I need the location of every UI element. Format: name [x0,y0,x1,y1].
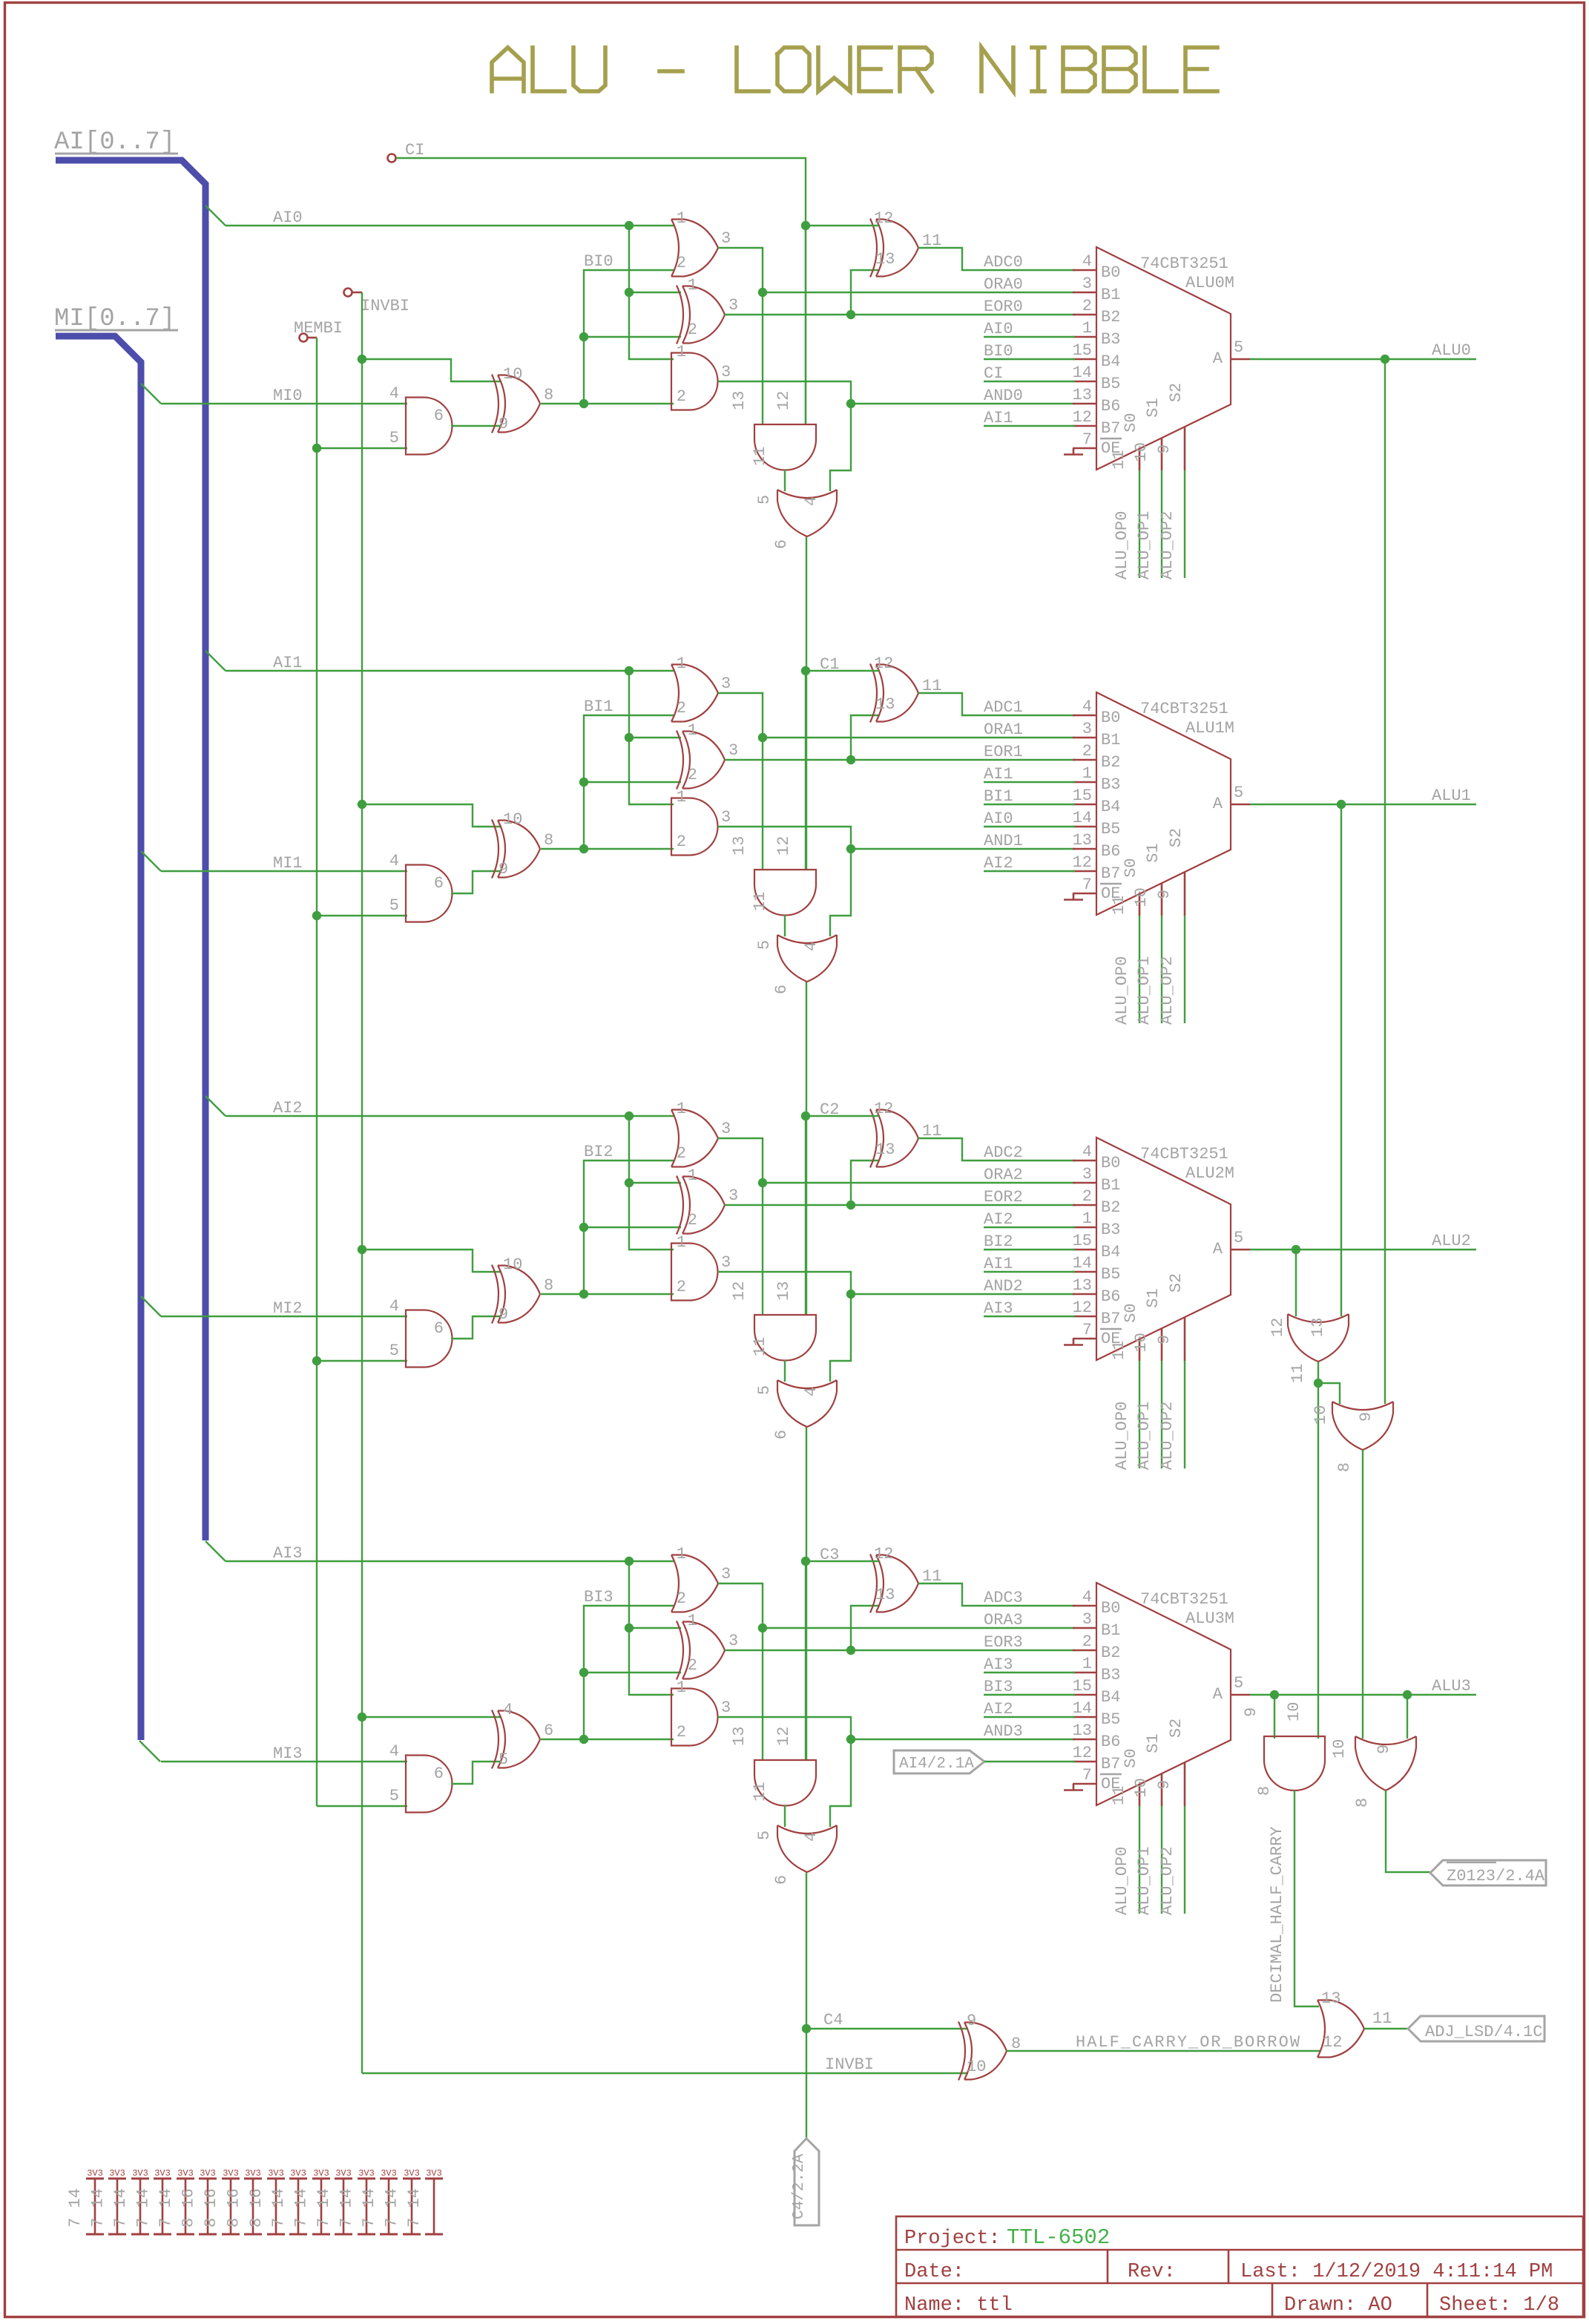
svg-text:ALU_OP2: ALU_OP2 [1158,1402,1177,1470]
pin S0 mux0 [1139,449,1141,470]
svg-text:B7: B7 [1101,1310,1120,1328]
sheet title ALU - LOWER NIBBLE [492,47,1217,91]
pin B3 (AI1) [1073,781,1096,784]
junction C2 in [801,1112,810,1120]
wire BI1 to XOR in2 [584,781,681,783]
svg-text:AI1: AI1 [273,654,303,672]
junction AI2 a [625,1112,634,1120]
wire EOR3 from XOR out [725,1650,1075,1651]
svg-text:3: 3 [728,741,738,760]
svg-text:INVBI: INVBI [361,297,409,315]
and-gate U0C (AI AND BI) [671,353,718,410]
svg-text:4: 4 [389,1742,399,1761]
wire AI1 [226,670,674,672]
node AI0 bus tap [205,206,226,226]
xor-gate U2E (B invert) [492,1265,540,1324]
pin OE mux3 [1073,1783,1096,1785]
svg-text:3: 3 [721,363,731,381]
and-gate U2G (carry AND) [754,1315,816,1360]
wire ADC0 from carry xor out [918,248,1075,270]
svg-text:5: 5 [389,1342,399,1360]
svg-text:12: 12 [1073,1299,1092,1317]
svg-text:CI: CI [405,141,424,160]
svg-text:S0: S0 [1122,413,1140,432]
svg-text:ADC2: ADC2 [984,1143,1023,1162]
wire ALU3 drop b [1407,1695,1408,1739]
svg-text:B5: B5 [1101,1710,1120,1729]
svg-text:6: 6 [434,1319,444,1338]
junction AI3 a [625,1557,634,1566]
svg-text:1: 1 [1082,1209,1092,1228]
pin B0 (ADC1) [1073,715,1096,717]
pin B6 (AND0) [1073,403,1096,405]
wire carry and pin13 drop [762,738,763,870]
xor-gate U1B (AI XOR BI) [677,731,725,790]
wire AI2 drop to gates [629,1116,674,1250]
junction ALU3 b [1403,1690,1412,1699]
svg-text:ORA1: ORA1 [984,720,1023,739]
svg-text:9: 9 [1242,1707,1260,1717]
junction INVBI block0 [358,355,366,364]
svg-text:A: A [1213,349,1223,368]
svg-text:10: 10 [503,810,522,829]
svg-text:AI1: AI1 [984,765,1013,784]
and-gate U1G (carry AND) [754,870,816,916]
svg-text:2: 2 [677,699,686,718]
svg-text:7: 7 [1082,1321,1092,1339]
junction BI2 b [579,1223,588,1232]
pin A mux3 [1231,1694,1250,1696]
svg-text:B7: B7 [1101,419,1120,438]
svg-text:4: 4 [503,1701,513,1719]
svg-text:13: 13 [1073,386,1092,404]
svg-text:BI3: BI3 [584,1588,613,1606]
svg-text:Sheet: 1/8: Sheet: 1/8 [1439,2294,1559,2317]
svg-text:1: 1 [677,788,686,807]
svg-text:ALU_OP2: ALU_OP2 [1158,956,1177,1025]
wire AI2 [226,1115,674,1117]
svg-text:ALU_OP1: ALU_OP1 [1135,956,1154,1025]
svg-text:3V3: 3V3 [223,2168,239,2179]
svg-text:13: 13 [1073,831,1092,850]
svg-text:B3: B3 [1101,1666,1120,1684]
bus AI[0..7] [56,160,205,1540]
svg-text:ORA3: ORA3 [984,1611,1023,1629]
svg-text:ALU_OP2: ALU_OP2 [1158,511,1177,580]
svg-text:13: 13 [875,1586,895,1604]
svg-text:MI[0..7]: MI[0..7] [54,305,175,333]
svg-text:2: 2 [1082,742,1092,761]
svg-text:7 14: 7 14 [111,2188,130,2228]
svg-text:1: 1 [677,209,686,228]
svg-text:C4/2.2A: C4/2.2A [791,2153,808,2219]
wire to ADJ_LSD flag [1364,2028,1408,2029]
svg-text:9: 9 [499,860,508,879]
svg-text:13: 13 [730,836,749,856]
svg-text:ALU1M: ALU1M [1185,719,1234,738]
svg-text:Last: 1/12/2019 4:11:14 PM: Last: 1/12/2019 4:11:14 PM [1240,2261,1553,2283]
wire carry chain C1 [806,536,807,870]
svg-text:EOR3: EOR3 [984,1633,1023,1652]
pin B7 (AI3) [1073,1316,1096,1318]
svg-text:3V3: 3V3 [335,2168,352,2179]
svg-text:ALU_OP1: ALU_OP1 [1135,1402,1154,1470]
svg-text:2: 2 [677,1144,686,1163]
svg-text:S2: S2 [1167,1273,1185,1293]
wire carry and pin13 drop [762,1183,763,1315]
svg-text:ADJ_LSD/4.1C: ADJ_LSD/4.1C [1425,2023,1542,2041]
pin B2 (EOR2) [1073,1204,1096,1207]
node AI3 bus tap [205,1541,226,1561]
wire AI3 drop to gates [629,1561,674,1695]
junction U10A out [1314,1379,1323,1388]
svg-text:7 14: 7 14 [383,2188,401,2228]
wire carry and out to OR [784,470,786,491]
wire BI2 to XOR in2 [584,1227,681,1228]
svg-text:B2: B2 [1101,753,1120,772]
xor-gate U3B (AI XOR BI) [677,1621,725,1680]
or-gate U10B (ALU0+ALU1+ALU2) [1332,1402,1393,1450]
wire MI3 [161,1761,407,1762]
wire ADC1 from carry xor out [918,693,1075,715]
wire AI1 drop to gates [629,671,674,804]
svg-text:9: 9 [967,2012,976,2030]
and-gate U1C (AI AND BI) [671,798,718,856]
svg-text:AI2: AI2 [984,1700,1013,1719]
svg-text:2: 2 [688,1211,697,1230]
junction ALU2 [1292,1245,1300,1254]
svg-text:Drawn: AO: Drawn: AO [1284,2294,1392,2317]
svg-text:AI2: AI2 [984,854,1013,873]
wire ALU2 [1250,1249,1476,1250]
junction AND0 [846,399,855,408]
svg-text:EOR0: EOR0 [984,298,1023,316]
wire AND out to XOR block2 [451,1316,501,1339]
or-gate U3A (AI OR BI) [671,1555,718,1612]
svg-text:11: 11 [1372,2009,1392,2028]
svg-text:BI1: BI1 [984,787,1013,806]
pin B3 (AI0) [1073,336,1096,338]
wire ALU_OP1 stub mux0 [1161,470,1162,578]
junction BI0 a [579,399,588,408]
svg-text:1: 1 [677,1100,686,1118]
junction ORA3 [758,1624,767,1632]
and-gate U3G (carry AND) [754,1760,816,1806]
svg-text:10: 10 [1132,887,1151,907]
svg-text:3V3: 3V3 [154,2168,171,2179]
svg-text:AI3: AI3 [273,1544,303,1563]
wire AI1 to XOR in1 [629,737,681,738]
junction AI0 a [625,221,634,230]
svg-text:10: 10 [503,1255,522,1274]
svg-text:S2: S2 [1167,383,1185,402]
wire C2 to carry xor pin12 [806,1115,879,1117]
junction MEMBI block1 [312,911,321,920]
svg-text:13: 13 [1321,1989,1340,2008]
svg-text:74CBT3251: 74CBT3251 [1140,1145,1228,1163]
svg-text:13: 13 [730,391,749,410]
pin S2 mux3 [1184,1762,1186,1806]
wire AND out to XOR block3 [451,1762,501,1784]
svg-text:9: 9 [1155,444,1174,454]
svg-text:12: 12 [1269,1318,1287,1337]
svg-text:S0: S0 [1122,1748,1140,1767]
pin A mux1 [1231,804,1250,806]
svg-text:8: 8 [1353,1798,1372,1808]
svg-text:8 16: 8 16 [247,2188,266,2228]
pin B4 (BI2) [1073,1249,1096,1251]
svg-text:15: 15 [1073,341,1092,360]
pin CI [388,154,396,163]
wire ALU2 vertical [1295,1250,1297,1316]
svg-text:1: 1 [688,1612,697,1630]
svg-text:7 14: 7 14 [157,2188,175,2228]
svg-text:6: 6 [772,985,791,994]
svg-text:10: 10 [967,2058,986,2076]
svg-text:5: 5 [1234,1674,1243,1693]
wire carry and pin12 drop [805,226,806,424]
junction BI3 a [579,1735,588,1744]
svg-text:4: 4 [1082,252,1092,271]
svg-text:AI0: AI0 [273,209,303,227]
wire BI0 net from XOR out [541,403,674,404]
junction EOR2 [846,1201,855,1209]
junction AND1 [846,844,855,853]
junction INVBI block1 [358,800,366,809]
svg-text:AI[0..7]: AI[0..7] [54,128,175,157]
svg-text:12: 12 [1073,1744,1092,1762]
svg-text:4: 4 [389,1297,399,1316]
svg-text:4: 4 [1082,697,1092,716]
svg-text:ALU3: ALU3 [1432,1677,1471,1696]
pin OE mux0 [1073,447,1096,450]
svg-text:AI2: AI2 [273,1099,303,1117]
junction MEMBI block2 [312,1356,321,1365]
wire AI3 [226,1560,674,1562]
and-gate U2C (AI AND BI) [671,1244,718,1301]
svg-text:10: 10 [1132,1778,1151,1797]
wire carry and pin13 drop [762,1628,763,1760]
svg-text:1: 1 [677,1545,686,1563]
svg-text:2: 2 [677,1278,686,1296]
svg-text:B6: B6 [1101,1287,1120,1306]
svg-text:10: 10 [1312,1405,1330,1425]
pin B5 (CI) [1073,381,1096,383]
pin B7 (AI2) [1073,870,1096,873]
wire carry and out to OR [784,1805,786,1827]
junction ORA1 [758,733,767,742]
wire AI2 to XOR in1 [629,1182,681,1184]
svg-text:1: 1 [1082,764,1092,783]
pin S1 mux2 [1161,1328,1163,1361]
pin S0 mux2 [1139,1339,1141,1361]
flag C4/2.2A [794,2138,819,2225]
wire EOR1 up to carry xor [851,715,879,760]
pin B4 (BI0) [1073,358,1096,361]
wire ADC2 from carry xor out [918,1138,1075,1161]
svg-text:B0: B0 [1101,709,1120,727]
pin B5 (AI1) [1073,1271,1096,1273]
xor-gate U2F (sum carry xor) [870,1109,918,1168]
pin S0 mux1 [1139,894,1141,916]
svg-text:1: 1 [688,721,697,740]
junction BI1 b [579,778,588,787]
node MI3 bus tap [139,1741,160,1762]
svg-text:ALU_OP0: ALU_OP0 [1113,1847,1131,1915]
junction AI0 b [625,288,634,297]
svg-text:ALU_OP1: ALU_OP1 [1135,511,1154,580]
svg-text:5: 5 [499,1750,508,1769]
svg-text:ORA0: ORA0 [984,275,1023,294]
wire ALU1 vertical [1340,804,1342,1316]
svg-text:B2: B2 [1101,308,1120,326]
wire carry and pin12 drop [805,671,806,870]
svg-text:1: 1 [688,1166,697,1185]
svg-text:3V3: 3V3 [200,2168,216,2179]
svg-text:2: 2 [677,1589,686,1608]
svg-text:5: 5 [755,1831,774,1840]
svg-text:ALU3M: ALU3M [1185,1609,1234,1628]
svg-text:B1: B1 [1101,1176,1120,1195]
svg-text:ALU2: ALU2 [1432,1232,1471,1250]
junction ALU3 a [1270,1690,1279,1699]
svg-text:1: 1 [677,1233,686,1252]
svg-text:C4: C4 [823,2011,843,2029]
svg-text:MI1: MI1 [273,854,303,873]
svg-text:8 16: 8 16 [179,2188,197,2228]
wire carry and pin12 drop [805,1116,806,1315]
svg-text:AI3: AI3 [984,1655,1013,1674]
wire BI3 vertical [584,1606,674,1739]
pin B1 (ORA2) [1073,1182,1096,1184]
svg-text:11: 11 [751,447,769,466]
wire ALU3 drop a [1274,1695,1275,1739]
svg-text:8 16: 8 16 [224,2188,243,2228]
or-gate U2H (carry OR) [777,1380,837,1427]
wire ALU0 [1250,358,1476,360]
svg-text:13: 13 [1073,1276,1092,1295]
wire BI1 vertical [584,715,674,849]
svg-text:6: 6 [434,1765,444,1783]
svg-text:11: 11 [751,1782,769,1802]
wire ORA1 from OR out [718,693,1075,738]
and-gate U3D (MI3 AND MEMBI) [406,1756,453,1813]
pin B2 (EOR3) [1073,1650,1096,1652]
svg-text:B6: B6 [1101,842,1120,861]
wire ALU0 vertical [1384,359,1386,1404]
wire ALU_OP0 stub mux1 [1139,916,1140,1023]
wire carry chain C4 segment [806,1872,807,2138]
svg-text:2: 2 [688,766,697,784]
svg-text:10: 10 [503,365,522,384]
wire CI [396,158,806,226]
junction BI0 b [579,332,588,341]
pin OE mux1 [1073,893,1096,895]
svg-text:1: 1 [677,654,686,673]
wire EOR1 from XOR out [725,759,1075,761]
svg-text:B3: B3 [1101,330,1120,349]
svg-text:4: 4 [802,1387,820,1396]
svg-text:4: 4 [1082,1143,1092,1161]
wire EOR2 up to carry xor [851,1161,879,1205]
svg-text:ADC1: ADC1 [984,698,1023,717]
svg-text:1: 1 [688,276,697,295]
wire AND1 down to carry OR [830,849,851,936]
mux U2 74CBT3251 ALU2M [1096,1138,1231,1360]
pin B0 (ADC0) [1073,269,1096,272]
svg-text:CI: CI [984,364,1003,383]
wire ALU_OP1 stub mux3 [1161,1806,1162,1914]
wire to Z0123 flag [1386,1790,1430,1872]
svg-text:2: 2 [677,387,686,406]
wire INVBI to XOR pin10 block1 [362,804,501,827]
svg-text:14: 14 [1073,1699,1092,1718]
svg-text:2: 2 [677,254,686,272]
svg-text:3: 3 [721,808,731,827]
svg-text:9: 9 [1155,890,1174,899]
svg-text:11: 11 [1110,1786,1128,1805]
xor-gate U3F (sum carry xor) [870,1555,918,1613]
pin B2 (EOR1) [1073,759,1096,761]
svg-text:3: 3 [728,1632,738,1650]
wire ADC3 from carry xor out [918,1583,1075,1606]
svg-text:3: 3 [721,229,731,248]
pin S2 mux0 [1184,427,1186,470]
svg-text:B3: B3 [1101,775,1120,794]
svg-text:15: 15 [1073,1232,1092,1250]
svg-text:ALU_OP1: ALU_OP1 [1135,1847,1154,1915]
pin B7 (AI4) [1073,1761,1096,1763]
wire U10A out down to U11A [1317,1383,1319,1739]
svg-text:B2: B2 [1101,1198,1120,1217]
pin B0 (ADC3) [1073,1605,1096,1607]
svg-text:B3: B3 [1101,1221,1120,1239]
svg-text:ALU_OP0: ALU_OP0 [1113,511,1131,580]
svg-text:A: A [1213,1685,1223,1704]
wire ALU3 [1250,1694,1476,1696]
svg-text:13: 13 [875,1140,895,1159]
svg-text:S1: S1 [1144,1288,1162,1307]
svg-text:9: 9 [1155,1780,1174,1790]
svg-text:ALU0M: ALU0M [1185,274,1234,292]
svg-text:2: 2 [1082,1187,1092,1206]
svg-text:3V3: 3V3 [177,2168,194,2179]
wire ORA3 from OR out [718,1583,1075,1628]
wire AI0 drop to gates [629,226,674,359]
wire ALU_OP2 stub mux3 [1184,1806,1185,1914]
wire carry and out to OR [784,1360,786,1382]
svg-text:ALU2M: ALU2M [1185,1164,1234,1183]
or-gate U1H (carry OR) [777,935,837,982]
wire INVBI to XOR pin10 block2 [362,1250,501,1272]
svg-text:MEMBI: MEMBI [294,319,343,338]
svg-text:2: 2 [677,1723,686,1742]
svg-text:7 14: 7 14 [269,2188,288,2228]
pin INVBI [344,289,352,297]
or-gate U0H (carry OR) [777,490,837,536]
junction C1 in [801,666,810,675]
svg-text:5: 5 [1234,338,1243,357]
svg-text:AND3: AND3 [984,1722,1023,1741]
svg-text:12: 12 [774,836,793,856]
svg-text:ADC0: ADC0 [984,253,1023,272]
svg-text:B4: B4 [1101,1688,1120,1707]
svg-text:7: 7 [1082,1766,1092,1785]
junction ALU0 [1381,355,1389,364]
junction C4 [802,2024,811,2033]
svg-text:AND2: AND2 [984,1277,1023,1296]
wire carry chain C2 [806,982,807,1315]
